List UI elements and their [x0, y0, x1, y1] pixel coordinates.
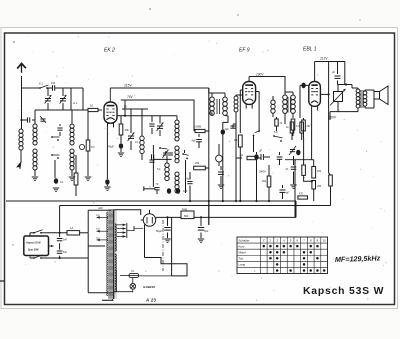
svg-text:10: 10	[90, 104, 94, 108]
wire A1 drop	[70, 88, 72, 110]
rectifier top stub	[149, 210, 151, 214]
wire sw drop	[54, 160, 56, 178]
antenna coil lead	[20, 150, 22, 162]
svg-text:µF: µF	[332, 71, 335, 74]
svg-text:50µF: 50µF	[156, 229, 162, 233]
wire 213 drop1	[337, 62, 339, 75]
trimmer C9	[130, 109, 132, 133]
capacitor C13	[196, 139, 202, 141]
switch S7b	[33, 257, 35, 259]
ground L2	[32, 176, 38, 178]
svg-text:0.1: 0.1	[60, 180, 64, 184]
capacitor C23	[280, 189, 286, 191]
wire mains to trafo	[88, 209, 111, 211]
svg-text:45µF: 45µF	[108, 145, 114, 149]
wire EBL1 grid	[300, 84, 309, 86]
svg-text:Kapsch 53 W: Kapsch 53 W	[27, 243, 42, 245]
svg-text:Mittel: Mittel	[239, 251, 247, 255]
switch S1	[39, 87, 41, 89]
switch S3c	[182, 153, 184, 155]
wire EBL1 screen	[320, 93, 328, 95]
wire L3 bottom	[71, 170, 73, 176]
trimmer C5	[40, 116, 46, 123]
IFT2 coil Lb	[291, 95, 296, 100]
rectifier V4	[143, 214, 155, 226]
resistor R2	[87, 110, 89, 140]
capacitor C6 blob	[54, 178, 58, 184]
capacitor C8 blob	[120, 135, 122, 143]
trimmer C31	[168, 152, 173, 154]
fuse F2 1A	[67, 231, 80, 235]
capacitor C26	[59, 233, 61, 237]
svg-text:A 1: A 1	[72, 101, 78, 105]
wire osc bus	[142, 115, 160, 117]
heater route	[145, 258, 188, 276]
resistor R9	[275, 119, 278, 126]
wire osc up	[124, 100, 126, 116]
coil L4	[141, 109, 143, 136]
svg-text:502: 502	[184, 214, 189, 218]
rail 213V	[315, 61, 345, 63]
resistor R7	[238, 135, 242, 147]
tube EBL1	[309, 82, 321, 107]
tube EBL1 plate	[314, 62, 316, 82]
IFT1 coil La	[211, 95, 213, 97]
svg-text:5.1: 5.1	[39, 82, 43, 86]
svg-text:10: 10	[323, 238, 327, 242]
wire spk a	[365, 89, 374, 91]
svg-text:EF 9: EF 9	[239, 48, 250, 54]
resistor R20	[302, 165, 306, 175]
tube EF9 plate lead	[248, 77, 250, 82]
resistor R10	[291, 119, 295, 130]
capacitor C35	[187, 181, 192, 183]
antenna coil L1	[19, 129, 23, 133]
wire bend down x83	[82, 88, 84, 110]
svg-text:0.1: 0.1	[135, 141, 139, 144]
svg-text:4µF: 4µF	[204, 229, 209, 233]
svg-text:5nF: 5nF	[63, 239, 68, 242]
svg-text:1A: 1A	[70, 226, 74, 230]
resistor R17	[300, 122, 304, 133]
junction dot out	[345, 83, 347, 85]
wire trim drop 1b	[47, 103, 49, 110]
wire osc h	[153, 158, 171, 160]
speaker transformer core	[360, 90, 362, 108]
switch S2b	[51, 154, 53, 156]
wire rect left	[141, 219, 144, 221]
osc coil L5d	[165, 163, 169, 167]
svg-text:Kapsch 53S W: Kapsch 53S W	[303, 286, 384, 297]
wire x72 top	[71, 110, 73, 124]
coil L2b	[33, 149, 37, 153]
resistor R11	[302, 120, 306, 131]
band switch table	[237, 237, 328, 274]
switch S3a	[159, 147, 161, 149]
resistor R6	[194, 166, 206, 170]
resistor R19 470	[298, 196, 308, 199]
capacitor C1	[47, 87, 52, 89]
inner border frame	[5, 33, 395, 305]
tube EF9	[243, 82, 256, 105]
resistor R14	[329, 175, 333, 186]
svg-text:4µF: 4µF	[225, 128, 230, 131]
resistor R12	[312, 167, 316, 179]
coil L3a	[70, 124, 74, 128]
wire 125 node	[125, 115, 142, 117]
wire 213 drop2	[344, 62, 346, 85]
resistor R15	[267, 176, 271, 187]
coil L3b	[70, 149, 74, 153]
wire trim drop 2b	[62, 103, 64, 110]
ground C8	[120, 149, 122, 152]
svg-text:Kurz: Kurz	[239, 244, 246, 248]
tube EK2 anode lead	[109, 88, 111, 102]
osc coil L5b	[175, 146, 179, 150]
capacitor C18	[260, 154, 262, 160]
capacitor C24 50uF	[167, 217, 169, 226]
wire EF9 g2	[239, 90, 241, 133]
transformer T1 left fringe	[107, 212, 108, 296]
shield line	[162, 220, 164, 271]
switch S4	[258, 130, 260, 132]
osc coil L5a	[176, 116, 178, 120]
svg-text:EK 2: EK 2	[104, 48, 115, 54]
wire EBL1 k	[311, 111, 313, 160]
wire lamp bottom	[114, 291, 133, 293]
bus chassis	[6, 200, 296, 202]
IFT1 top bar	[208, 88, 210, 93]
resistor R16	[290, 122, 294, 133]
blob C34	[167, 188, 171, 194]
wire trafo top right	[114, 210, 141, 215]
wire R1 to EK2 grid	[98, 109, 102, 111]
coil L6 grid	[234, 96, 238, 100]
svg-text:Schalter: Schalter	[239, 238, 250, 242]
wire midv down	[208, 201, 210, 225]
svg-text:EBL 1: EBL 1	[303, 47, 317, 53]
IFT2 coil La	[283, 95, 288, 100]
wire grid bus y110	[35, 109, 88, 111]
coil L2a	[33, 124, 37, 128]
fuse F3	[129, 273, 139, 277]
svg-text:Lang: Lang	[239, 263, 246, 267]
capacitor C12	[149, 159, 154, 161]
wire EK2 side	[117, 115, 125, 117]
transformer T1 secondary b	[115, 254, 116, 292]
capacitor C15 blob	[222, 122, 224, 129]
resistor R1 grid stopper	[88, 108, 98, 111]
trimmer C11	[157, 125, 163, 127]
wire rect out	[155, 217, 158, 218]
svg-text:76V: 76V	[127, 95, 134, 99]
resistor R8 G1	[247, 156, 256, 159]
capacitor C32	[151, 154, 153, 159]
terminal left	[144, 188, 156, 190]
bus B2	[60, 205, 331, 207]
wire mid col	[193, 128, 195, 131]
svg-text:♪: ♪	[254, 269, 256, 273]
svg-text:190V: 190V	[256, 73, 264, 77]
switch S7a	[33, 232, 35, 234]
wire trim drop 1	[47, 88, 49, 96]
wire mains up	[294, 160, 296, 217]
wire IFT1 sec	[222, 135, 224, 201]
svg-text:5nF: 5nF	[63, 251, 68, 254]
resistor R4	[120, 116, 122, 124]
resistor R13	[312, 181, 316, 190]
phone jack J1	[216, 155, 223, 162]
svg-text:100: 100	[51, 82, 56, 85]
trimmer C3	[60, 98, 66, 100]
rail 76V	[121, 100, 194, 128]
fuse F1 502	[181, 211, 194, 219]
capacitor C27	[59, 243, 61, 249]
svg-text:20k: 20k	[195, 161, 200, 165]
IFT2 top bar	[285, 91, 293, 93]
capacitor C22	[291, 166, 297, 168]
capacitor C16	[230, 125, 235, 127]
transformer T1 core	[113, 210, 115, 299]
wire midcol v	[208, 88, 210, 225]
trimmer C30	[163, 152, 168, 154]
capacitor C25 4uF	[200, 219, 202, 226]
wire L2 bottom	[34, 110, 36, 124]
IFT2 core	[287, 97, 289, 112]
IFT2 third winding	[271, 100, 275, 104]
varistor VR1	[334, 92, 343, 102]
tube EK2	[104, 102, 117, 123]
wire y109 link	[122, 108, 148, 110]
antenna lead wire	[21, 76, 23, 129]
svg-text:A10: A10	[97, 206, 103, 210]
wire sw4 down	[253, 136, 255, 153]
svg-text:A 23: A 23	[145, 298, 157, 303]
svg-text:213V: 213V	[319, 57, 328, 61]
lamp scale	[79, 144, 84, 149]
capacitor C21	[277, 156, 283, 158]
svg-text:0.3: 0.3	[91, 145, 95, 149]
svg-text:5.0: 5.0	[274, 131, 278, 134]
wire antenna to S1	[21, 87, 40, 89]
transformer T1 secondary a	[115, 224, 116, 251]
wire det	[236, 157, 242, 159]
svg-text:4µF: 4µF	[192, 140, 197, 143]
wire C1 to bend	[55, 87, 83, 89]
svg-text:MF=129,5kHz: MF=129,5kHz	[335, 253, 381, 264]
transformer T1 shade	[108, 210, 117, 299]
svg-text:30k: 30k	[125, 128, 130, 132]
osc coil L5c	[175, 172, 179, 176]
paper speckles	[132, 76, 133, 77]
border tick left	[0, 280, 5, 282]
wire bus corner	[295, 201, 297, 217]
IFT1 core	[216, 99, 218, 114]
wire R2 down	[87, 151, 89, 176]
capacitor C33	[154, 187, 159, 189]
resistor R3	[75, 155, 77, 173]
rail 190V	[249, 77, 285, 93]
ground L3	[69, 176, 75, 178]
svg-text:G1/B218: G1/B218	[143, 285, 155, 289]
resistor R5	[195, 129, 205, 132]
svg-text:µF: µF	[259, 150, 262, 153]
IFT1 coil Lb	[224, 95, 226, 97]
svg-text:8µF: 8µF	[187, 177, 192, 180]
wire box fuse right	[80, 232, 89, 234]
svg-text:Feig: Feig	[182, 207, 188, 211]
svg-text:470: 470	[299, 193, 304, 196]
svg-text:150: 150	[317, 170, 322, 173]
svg-text:Ton: Ton	[239, 257, 244, 261]
svg-text:240V: 240V	[258, 170, 267, 174]
wire box bottom	[47, 257, 88, 259]
svg-text:115V: 115V	[124, 84, 132, 88]
wire trim drop 2	[62, 88, 64, 96]
capacitor C20 blob	[254, 154, 258, 160]
lamp dial	[130, 284, 136, 290]
wire var	[337, 85, 339, 92]
speaker LS1	[374, 92, 380, 100]
mains box	[24, 236, 49, 256]
B+ line	[156, 216, 181, 218]
trimmer C40	[290, 149, 295, 151]
antenna	[17, 63, 26, 68]
speaker transformer pri	[356, 89, 360, 93]
ground R2	[85, 176, 91, 178]
capacitor C10	[149, 123, 154, 125]
capacitor C19	[335, 75, 341, 77]
ground C6	[53, 187, 59, 189]
ground J1	[218, 184, 224, 186]
speaker transformer sec	[363, 91, 367, 95]
wire heater right	[171, 217, 173, 276]
wire box top	[47, 232, 67, 234]
wire out bottom	[330, 111, 358, 113]
capacitor C17	[220, 166, 222, 170]
wire spk feed	[346, 84, 352, 86]
transformer T1 taps left	[97, 216, 109, 218]
svg-text:0.1: 0.1	[234, 139, 238, 142]
svg-text:0.05M: 0.05M	[194, 125, 201, 129]
switch S5	[273, 135, 275, 137]
transformer right taps	[117, 224, 126, 226]
capacitor C4	[21, 119, 27, 121]
svg-text:≈: ≈	[12, 243, 14, 247]
svg-text:250: 250	[317, 185, 322, 188]
transformer T1 sec wire	[111, 299, 113, 300]
earth terminal	[17, 162, 21, 169]
padder cap C7	[57, 127, 62, 129]
trimmer C2	[45, 98, 51, 100]
switch S2a	[51, 136, 53, 138]
rail 115V	[110, 87, 209, 89]
svg-text:G1: G1	[240, 153, 244, 157]
wire bus left	[59, 206, 61, 233]
wire right col	[328, 62, 330, 174]
svg-text:Spez 30W: Spez 30W	[28, 250, 39, 252]
svg-text:2M: 2M	[307, 125, 310, 128]
capacitor C36 cathode blob	[106, 127, 108, 179]
